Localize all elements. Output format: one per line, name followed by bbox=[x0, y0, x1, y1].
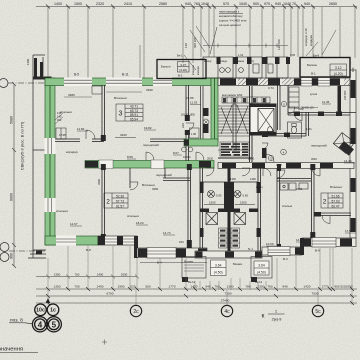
svg-text:2: 2 bbox=[106, 199, 110, 206]
svg-text:5.83: 5.83 bbox=[243, 194, 249, 198]
svg-text:570: 570 bbox=[223, 2, 229, 6]
svg-text:19.82: 19.82 bbox=[144, 126, 152, 130]
svg-text:2580: 2580 bbox=[159, 2, 167, 6]
svg-text:57.03: 57.03 bbox=[332, 199, 340, 203]
svg-text:6700: 6700 bbox=[107, 292, 114, 296]
svg-text:к: к bbox=[262, 313, 265, 320]
svg-text:0.95: 0.95 bbox=[290, 53, 296, 57]
svg-text:940: 940 bbox=[275, 2, 281, 6]
svg-text:2(к)-9: 2(к)-9 bbox=[272, 318, 282, 322]
svg-text:Бм-9: Бм-9 bbox=[313, 54, 320, 58]
svg-text:спальня: спальня bbox=[127, 214, 139, 218]
svg-text:Вн-1: Вн-1 bbox=[177, 54, 183, 58]
svg-text:700: 700 bbox=[74, 285, 79, 289]
svg-text:кладова: кладова bbox=[192, 65, 195, 75]
svg-text:330: 330 bbox=[57, 118, 62, 122]
svg-text:1350: 1350 bbox=[54, 285, 61, 289]
svg-text:8.07: 8.07 bbox=[173, 151, 179, 155]
svg-text:1500: 1500 bbox=[209, 200, 216, 204]
svg-text:3390: 3390 bbox=[97, 178, 101, 185]
svg-text:В-8: В-8 bbox=[86, 248, 91, 252]
svg-text:Вітальня: Вітальня bbox=[114, 96, 127, 100]
svg-text:1420: 1420 bbox=[191, 285, 198, 289]
svg-text:1040: 1040 bbox=[283, 2, 291, 6]
svg-text:В-11: В-11 bbox=[122, 73, 129, 77]
svg-text:коридор: коридор bbox=[66, 150, 78, 154]
svg-text:(4.50): (4.50) bbox=[257, 270, 266, 274]
svg-text:1.61: 1.61 bbox=[306, 127, 312, 131]
svg-text:1900: 1900 bbox=[346, 285, 353, 289]
svg-text:Вн-11: Вн-11 bbox=[188, 280, 195, 284]
svg-text:2с: 2с bbox=[133, 309, 139, 315]
svg-text:60.47: 60.47 bbox=[332, 204, 340, 208]
svg-text:(4.20): (4.20) bbox=[334, 72, 343, 76]
svg-text:5: 5 bbox=[52, 320, 57, 329]
svg-text:57.73: 57.73 bbox=[116, 199, 124, 203]
svg-text:1420: 1420 bbox=[304, 285, 311, 289]
svg-text:1540: 1540 bbox=[239, 2, 247, 6]
svg-text:2: 2 bbox=[323, 199, 327, 206]
svg-text:18.24: 18.24 bbox=[136, 221, 144, 225]
svg-text:61.57: 61.57 bbox=[116, 204, 124, 208]
svg-text:спальня: спальня bbox=[56, 209, 68, 213]
svg-text:7030: 7030 bbox=[312, 292, 319, 296]
svg-text:220: 220 bbox=[181, 123, 185, 128]
svg-text:500: 500 bbox=[145, 285, 150, 289]
svg-text:передпокій: передпокій bbox=[143, 143, 159, 147]
svg-text:Балкон: Балкон bbox=[307, 63, 317, 67]
svg-text:120 600: 120 600 bbox=[277, 39, 281, 50]
svg-text:коридор 3.40: коридор 3.40 bbox=[304, 28, 308, 46]
svg-text:21.86: 21.86 bbox=[186, 96, 194, 100]
svg-text:150: 150 bbox=[179, 240, 184, 244]
svg-text:3.64: 3.64 bbox=[215, 264, 222, 268]
svg-text:1300: 1300 bbox=[230, 177, 236, 181]
svg-text:Балкон: Балкон bbox=[161, 65, 171, 69]
svg-text:4: 4 bbox=[38, 320, 43, 329]
svg-text:920: 920 bbox=[351, 67, 355, 72]
svg-text:14.14: 14.14 bbox=[296, 238, 304, 242]
svg-text:3040: 3040 bbox=[311, 157, 317, 161]
svg-text:200 50 1850: 200 50 1850 bbox=[181, 114, 196, 117]
svg-text:3400: 3400 bbox=[120, 133, 127, 137]
svg-text:12.67: 12.67 bbox=[70, 222, 78, 226]
svg-text:1500: 1500 bbox=[240, 200, 247, 204]
svg-text:14.44: 14.44 bbox=[344, 159, 352, 163]
svg-text:1.98: 1.98 bbox=[191, 133, 196, 136]
svg-text:2020: 2020 bbox=[207, 157, 214, 161]
svg-text:на цем-цементі: на цем-цементі bbox=[219, 23, 241, 27]
svg-text:600 180: 600 180 bbox=[193, 37, 197, 48]
svg-text:1500: 1500 bbox=[74, 2, 82, 6]
svg-text:кладо: кладо bbox=[220, 60, 228, 63]
svg-text:3: 3 bbox=[119, 111, 123, 118]
svg-text:1300: 1300 bbox=[258, 285, 265, 289]
svg-text:2650: 2650 bbox=[329, 2, 337, 6]
svg-text:8.55: 8.55 bbox=[127, 155, 133, 159]
svg-text:3000: 3000 bbox=[298, 107, 304, 111]
svg-text:1400: 1400 bbox=[97, 285, 104, 289]
svg-text:11.82: 11.82 bbox=[77, 127, 85, 131]
svg-text:240 900: 240 900 bbox=[343, 90, 347, 100]
svg-text:130: 130 bbox=[57, 111, 62, 115]
svg-text:передпокій: передпокій bbox=[156, 173, 172, 177]
svg-text:1900: 1900 bbox=[118, 285, 125, 289]
svg-text:ванна: ванна bbox=[237, 60, 245, 63]
svg-text:51.66: 51.66 bbox=[332, 194, 340, 198]
svg-text:3.64: 3.64 bbox=[258, 264, 265, 268]
svg-text:11.45: 11.45 bbox=[322, 100, 330, 104]
svg-text:В-5: В-5 bbox=[74, 73, 79, 77]
svg-text:140: 140 bbox=[57, 115, 62, 119]
svg-text:1745: 1745 bbox=[59, 133, 66, 137]
svg-text:5.83: 5.83 bbox=[216, 194, 222, 198]
svg-text:передпокій: передпокій bbox=[311, 144, 327, 148]
svg-text:вент.камери 1250: вент.камери 1250 bbox=[222, 94, 243, 97]
svg-text:поз. 8: поз. 8 bbox=[10, 317, 23, 323]
svg-text:900: 900 bbox=[10, 253, 14, 259]
svg-text:3.37: 3.37 bbox=[180, 63, 186, 67]
svg-text:970: 970 bbox=[264, 2, 270, 6]
svg-text:позначення: позначення bbox=[0, 347, 23, 353]
svg-text:2410: 2410 bbox=[124, 2, 132, 6]
svg-text:кухня: кухня bbox=[310, 92, 318, 96]
svg-text:700: 700 bbox=[75, 272, 80, 276]
svg-text:спальня: спальня bbox=[60, 110, 72, 114]
svg-text:5г-1: 5г-1 bbox=[248, 247, 253, 251]
svg-text:70: 70 bbox=[292, 2, 296, 6]
svg-text:10 910: 10 910 bbox=[183, 156, 191, 159]
svg-text:27400: 27400 bbox=[221, 299, 230, 303]
svg-text:кухня: кухня bbox=[224, 186, 231, 189]
svg-text:900: 900 bbox=[253, 2, 259, 6]
svg-text:В-2: В-2 bbox=[178, 74, 183, 78]
svg-text:Возаем: Возаем bbox=[184, 260, 193, 264]
svg-text:комор: комор bbox=[204, 60, 212, 63]
svg-text:1400: 1400 bbox=[26, 58, 30, 65]
svg-text:перегородки з: перегородки з bbox=[219, 10, 240, 14]
svg-text:10с: 10с bbox=[36, 308, 45, 314]
svg-text:940: 940 bbox=[304, 2, 310, 6]
svg-text:3362: 3362 bbox=[296, 187, 303, 191]
svg-text:Вітальня: Вітальня bbox=[330, 185, 342, 189]
svg-text:760: 760 bbox=[214, 285, 219, 289]
svg-text:2320: 2320 bbox=[96, 2, 104, 6]
svg-text:1400: 1400 bbox=[97, 272, 104, 276]
svg-text:В-1: В-1 bbox=[311, 72, 316, 76]
svg-text:940: 940 bbox=[185, 2, 191, 6]
svg-text:1770: 1770 bbox=[322, 285, 329, 289]
svg-text:1с: 1с bbox=[50, 308, 56, 314]
svg-text:1300: 1300 bbox=[227, 285, 234, 289]
svg-text:1500: 1500 bbox=[121, 272, 128, 276]
svg-text:(щільн Y=1400 кг/м: (щільн Y=1400 кг/м bbox=[219, 19, 246, 23]
svg-text:3390: 3390 bbox=[146, 88, 153, 92]
svg-text:1040: 1040 bbox=[201, 2, 209, 6]
svg-text:17.54: 17.54 bbox=[345, 229, 353, 233]
svg-text:4с: 4с bbox=[224, 309, 230, 315]
svg-text:2030: 2030 bbox=[248, 157, 255, 161]
svg-text:900: 900 bbox=[334, 285, 339, 289]
svg-text:120: 120 bbox=[184, 43, 188, 48]
svg-text:52.36: 52.36 bbox=[116, 194, 124, 198]
svg-text:В-3: В-3 bbox=[283, 257, 288, 261]
svg-text:3360: 3360 bbox=[152, 187, 159, 191]
svg-text:5с: 5с bbox=[315, 309, 321, 315]
svg-text:7100: 7100 bbox=[225, 292, 232, 296]
svg-text:керамзітобетону: керамзітобетону bbox=[219, 14, 243, 18]
svg-text:спальні: спальні bbox=[282, 204, 292, 208]
svg-text:комора: комора bbox=[197, 66, 200, 75]
svg-text:3380: 3380 bbox=[68, 93, 75, 97]
svg-text:(4.50): (4.50) bbox=[214, 271, 223, 275]
svg-text:3.12: 3.12 bbox=[335, 66, 342, 70]
svg-text:6000: 6000 bbox=[10, 193, 14, 201]
svg-text:3.74: 3.74 bbox=[268, 86, 274, 90]
svg-text:940: 940 bbox=[205, 285, 210, 289]
svg-text:1350: 1350 bbox=[54, 272, 61, 276]
svg-text:1400: 1400 bbox=[54, 2, 62, 6]
svg-text:В-9: В-9 bbox=[315, 249, 320, 253]
svg-text:525: 525 bbox=[130, 285, 135, 289]
svg-text:940: 940 bbox=[282, 285, 287, 289]
svg-text:2.11: 2.11 bbox=[200, 57, 205, 61]
svg-text:1.34: 1.34 bbox=[238, 53, 244, 57]
svg-text:1300: 1300 bbox=[250, 177, 256, 181]
svg-text:65.94: 65.94 bbox=[130, 117, 138, 121]
svg-text:СВК(10)/5-3 (пос. В по ГП): СВК(10)/5-3 (пос. В по ГП) bbox=[20, 121, 25, 170]
svg-text:Возаем: Возаем bbox=[233, 262, 242, 266]
svg-text:780: 780 bbox=[245, 285, 250, 289]
svg-text:(4.20): (4.20) bbox=[179, 68, 187, 72]
svg-text:кладова: кладова bbox=[309, 35, 313, 46]
svg-text:760: 760 bbox=[194, 2, 200, 6]
svg-text:10.69: 10.69 bbox=[266, 242, 274, 246]
svg-text:кухня: кухня bbox=[256, 186, 263, 189]
svg-text:14.74: 14.74 bbox=[163, 231, 171, 235]
svg-text:11.53: 11.53 bbox=[190, 101, 198, 105]
svg-text:760: 760 bbox=[267, 285, 272, 289]
svg-text:1770: 1770 bbox=[169, 285, 176, 289]
svg-text:5080: 5080 bbox=[10, 116, 14, 124]
